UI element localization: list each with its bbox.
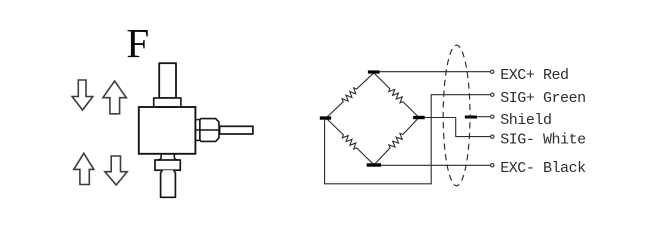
cable cross-section ellipse (dashed): [443, 45, 470, 186]
cable gland nut: [200, 119, 219, 142]
svg-text:SIG+ Green: SIG+ Green: [500, 90, 586, 107]
cable stub: [220, 126, 253, 134]
terminal circle SIG+: [491, 93, 494, 96]
terminal circle EXC-: [491, 164, 494, 167]
wire Shield (bar to terminal): [477, 116, 491, 118]
wire EXC+ (top corner to terminal): [380, 71, 491, 73]
terminal circle SIG-: [491, 135, 494, 138]
load cell bottom neck: [158, 154, 179, 160]
svg-text:Shield: Shield: [500, 112, 551, 129]
svg-text:SIG- White: SIG- White: [500, 132, 586, 149]
load cell body: [139, 107, 196, 154]
resistor R1 (top-left bridge arm): [326, 73, 374, 118]
terminal circle Shield: [491, 115, 494, 118]
resistor R4 (bottom-right bridge arm): [374, 118, 419, 165]
wire EXC- (bottom corner to terminal): [381, 164, 491, 166]
resistor R3 (bottom-left bridge arm): [326, 118, 374, 165]
svg-text:EXC+ Red: EXC+ Red: [500, 67, 568, 84]
resistor R2 (top-right bridge arm): [374, 73, 419, 118]
node terminal bar (bridge right corner): [413, 116, 425, 119]
cable gland midline: [196, 129, 219, 131]
load cell bottom flange: [155, 160, 180, 170]
terminal circle EXC+: [491, 70, 494, 73]
shield conductor bar: [465, 116, 477, 119]
force arrow down (lower right): [105, 156, 127, 185]
node terminal bar (bridge top corner): [368, 70, 380, 73]
force arrow up (upper right): [103, 81, 126, 114]
force arrow up (lower left): [74, 153, 94, 184]
svg-text:F: F: [126, 20, 149, 66]
cable gland neck: [196, 120, 200, 141]
node terminal bar (bridge bottom corner): [367, 163, 381, 166]
svg-text:EXC- Black: EXC- Black: [500, 160, 586, 177]
wire SIG+ (left corner routed under bridge to terminal): [325, 95, 491, 184]
wire SIG- (right corner jog down to terminal): [425, 118, 491, 137]
node terminal bar (bridge left corner): [320, 116, 331, 119]
force arrow down (upper left): [72, 80, 93, 110]
load cell top boss: [154, 98, 181, 107]
load cell bottom stud: [161, 170, 176, 197]
load cell top stud: [159, 63, 176, 98]
